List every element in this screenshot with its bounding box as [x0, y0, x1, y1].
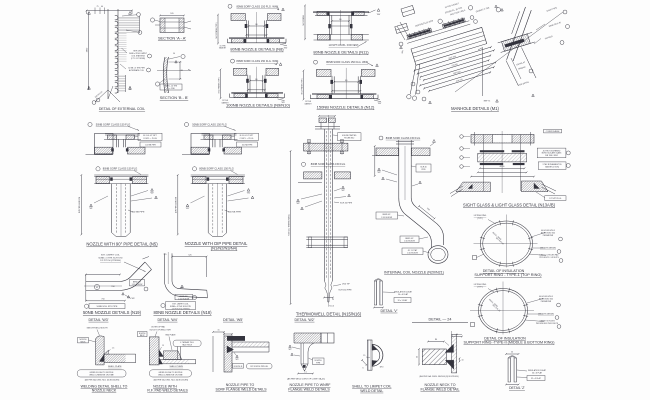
section A-A side stubs	[184, 21, 191, 23]
detail 24 vertical flange bar	[452, 334, 457, 373]
svg-text:40: 40	[101, 6, 103, 8]
svg-text:80NB SORF CLASS 150 FLG: 80NB SORF CLASS 150 FLG	[103, 167, 137, 171]
svg-text:SUPPORT RING - TYPE-1 (TOP RIN: SUPPORT RING - TYPE-1 (TOP RING)	[474, 273, 542, 277]
external coil top dimension line	[87, 10, 133, 12]
W5 flange vertical bar	[224, 336, 232, 372]
svg-text:HOLES M12: HOLES M12	[344, 137, 354, 139]
svg-text:R6: R6	[435, 339, 437, 341]
svg-text:32 x 3 FLAT: 32 x 3 FLAT	[398, 299, 409, 302]
N9/N10 weld marks on neck	[246, 79, 249, 83]
N12 weld marks on neck	[330, 80, 333, 84]
svg-text:25: 25	[332, 299, 334, 301]
svg-text:100 NB PIPE: 100 NB PIPE	[132, 212, 145, 214]
W5 nozzle dia box	[233, 364, 244, 369]
external coil top small dims	[94, 8, 96, 15]
N9/N10 shell plate left (hatched)	[234, 68, 247, 75]
section B-B lower-left leader	[155, 82, 159, 86]
thermowell right leader flags	[342, 186, 345, 189]
N8 left dimension line	[217, 15, 219, 44]
section A-A leader circle	[150, 18, 154, 22]
N5 left dim	[80, 175, 82, 235]
limpet weld triangle bottom	[372, 360, 377, 366]
manhole bottom flags	[429, 101, 432, 104]
N12 center line	[345, 68, 347, 99]
manhole left flag	[400, 46, 403, 49]
N5 pad flange	[94, 174, 148, 176]
W2 leader flags	[289, 345, 291, 347]
sight glass gasket bars upper	[480, 150, 504, 152]
section A-A top dim	[160, 15, 184, 17]
davit pipe lines	[503, 6, 532, 62]
thermowell mid leader text	[301, 162, 305, 166]
N19 horizontal pipe	[86, 281, 120, 283]
svg-text:BEND 90°: BEND 90°	[133, 281, 141, 283]
N5 pipe bottom tip	[112, 233, 116, 237]
svg-text:MANHOLE DETAILS (M1): MANHOLE DETAILS (M1)	[451, 106, 499, 111]
external coil mid striations	[119, 33, 127, 62]
N12 flange weld triangles	[329, 95, 332, 99]
internal coil end circle	[428, 246, 448, 264]
N8 center line	[255, 12, 257, 43]
svg-text:BEND 45°: BEND 45°	[383, 214, 391, 216]
N1/N2/N3/N4 big shell rect left	[191, 134, 210, 155]
section B-B right dim	[179, 62, 181, 79]
svg-text:NECK: NECK	[81, 341, 87, 343]
limpet D arc outer	[372, 344, 383, 366]
manhole barrel rectangle	[411, 27, 487, 65]
W3 weld marks	[100, 354, 105, 361]
N5 weld dots at shell	[111, 148, 114, 151]
svg-text:50NB SORF CLASS 150 FLG: 50NB SORF CLASS 150 FLG	[96, 122, 130, 126]
N19 pipe cut end extra	[143, 257, 150, 260]
svg-text:OUTER OF PAD: OUTER OF PAD	[151, 326, 166, 329]
limpet weld triangle top	[372, 344, 377, 350]
sight glass shell wing lines	[450, 186, 463, 194]
external coil bottom markers	[88, 87, 91, 90]
detail 24 top dims	[452, 336, 462, 338]
section B-B note box	[160, 84, 182, 90]
N8 top leader text	[228, 4, 232, 8]
N9/N10 flange hatched left	[234, 94, 246, 98]
N11 flange hatched parts	[317, 12, 327, 16]
W4 tell-tale hole	[176, 347, 178, 360]
svg-text:50NB SORF CLASS 150 FLG: 50NB SORF CLASS 150 FLG	[192, 122, 226, 126]
N1/N2/N3/N4 top flange lines	[202, 133, 237, 135]
svg-text:DETAIL 'W5': DETAIL 'W5'	[223, 318, 243, 322]
svg-text:15: 15	[363, 355, 365, 357]
svg-text:Ø 10.5: Ø 10.5	[328, 306, 335, 308]
section B-B weld flag	[175, 61, 177, 63]
sight glass top cover bar	[471, 135, 534, 144]
sight glass gasket bars lower	[480, 163, 503, 165]
svg-text:GRIND FLUSH TO NOZZLE: GRIND FLUSH TO NOZZLE	[158, 372, 183, 374]
svg-text:100 NB PIPE: 100 NB PIPE	[228, 212, 241, 214]
N5 pad flange hatched	[96, 177, 110, 184]
svg-text:1.5D ELBOW: 1.5D ELBOW	[178, 298, 189, 300]
W3 nozzle neck bar	[96, 336, 105, 365]
N9/N10 flange hatched right	[267, 94, 279, 98]
ring2 crosshair	[470, 310, 534, 312]
N1/N2/N3/N4 mid leader	[192, 167, 196, 171]
svg-text:(TYP.): (TYP.)	[477, 287, 483, 289]
svg-text:TALE HOLE: TALE HOLE	[182, 343, 193, 346]
svg-text:'W5': 'W5'	[378, 103, 382, 105]
W3 shell plate	[104, 353, 136, 355]
W2 flange top bar plain right	[321, 333, 334, 343]
svg-text:SCH 40 PIPE: SCH 40 PIPE	[340, 202, 353, 204]
N1/N2/N3/N4 weld dots at shell	[208, 148, 211, 151]
internal coil bend note 3	[402, 248, 423, 255]
svg-text:80NB SORF CLASS 150 FLG: 80NB SORF CLASS 150 FLG	[311, 162, 345, 166]
svg-text:100NB NOZZLE DETAILS (N9/N10): 100NB NOZZLE DETAILS (N9/N10)	[226, 103, 291, 108]
ring1 splice ticks	[528, 248, 533, 249]
N11 top right flag	[369, 10, 376, 13]
svg-text:10: 10	[462, 360, 464, 362]
N18 elbow bend	[164, 281, 207, 298]
external coil left dimension line	[88, 13, 90, 89]
N9/N10 bottom flange	[231, 91, 283, 93]
N1/N2/N3/N4 right leaders	[247, 189, 250, 192]
ring1 crosshair	[474, 243, 538, 245]
svg-text:50: 50	[173, 53, 175, 55]
N11 shell plates bottom hatched	[317, 35, 330, 40]
N18 bend note box	[175, 294, 193, 300]
N1/N2/N3/N4 shell plates hatched	[191, 147, 209, 154]
W2 note box	[313, 358, 325, 365]
N1/N2/N3/N4 top flange hatched parts	[204, 135, 213, 139]
sight glass center line	[501, 131, 503, 193]
detail V dim	[374, 307, 383, 309]
svg-text:M. FLG 1/2' NPT: M. FLG 1/2' NPT	[240, 135, 254, 137]
internal coil right note box	[416, 164, 431, 172]
N18 bottom note box	[161, 303, 165, 307]
detail Z channel	[508, 358, 511, 382]
svg-text:WELD DETAIL: WELD DETAIL	[360, 389, 383, 393]
sight glass weld triangles	[468, 184, 472, 188]
external coil detail: shell vertical lines	[107, 9, 109, 99]
N1/N2/N3/N4 top leader	[184, 122, 188, 126]
thermowell wide plate	[304, 143, 348, 151]
section B-B center line	[157, 70, 190, 72]
detail 24 weld triangle bottom	[445, 360, 453, 369]
N1/N2/N3/N4 note boxes right	[235, 133, 259, 140]
internal coil nozzle flag	[433, 140, 436, 143]
W5 W5 leader	[236, 355, 238, 357]
internal coil left flags	[378, 168, 381, 171]
N1/N2/N3/N4 pipe bottom tip	[208, 233, 212, 237]
W2 flange top bar hatched	[294, 333, 321, 343]
internal coil nozzle top leader	[379, 136, 383, 140]
svg-text:(AS PER WELD JOINT OF COMP. GA: (AS PER WELD JOINT OF COMP. GA-05)	[287, 378, 325, 381]
W4 grind flush box	[149, 370, 191, 377]
svg-text:R = 1130: R = 1130	[167, 88, 174, 90]
svg-text:DETAIL 'W3': DETAIL 'W3'	[89, 318, 109, 322]
svg-text:'W5': 'W5'	[284, 47, 288, 49]
section B-B curved shell strip	[163, 57, 165, 93]
svg-text:PRO BOLTS / LR NUTS: PRO BOLTS / LR NUTS	[539, 257, 559, 259]
N8 shell plate right (hatched)	[268, 14, 281, 21]
svg-text:1ST NOZZLE PIPE LBL: 1ST NOZZLE PIPE LBL	[250, 366, 268, 368]
N8 flange hatched left	[232, 39, 244, 43]
thermowell bottom taper	[325, 281, 328, 294]
N11 left dimension line	[304, 5, 306, 39]
svg-text:M/C FINISH: M/C FINISH	[303, 15, 305, 26]
svg-text:PERIMETER: PERIMETER	[543, 235, 554, 237]
svg-text:EXT. LIMPET COIL: EXT. LIMPET COIL	[101, 255, 121, 257]
W3 grind flush box	[77, 370, 126, 377]
davit perpendicular strokes	[506, 61, 519, 87]
W2 neck	[300, 343, 302, 364]
thermowell mid support plates	[306, 236, 348, 238]
svg-text:15: 15	[218, 330, 220, 332]
N11 weld marks neck bottom	[328, 24, 331, 28]
W4 RF pad	[163, 351, 181, 360]
thermowell shell plates	[304, 172, 322, 179]
detail Z top dim	[506, 353, 519, 355]
detail Z bottom dim	[506, 384, 519, 386]
svg-text:SHELL PLATE: SHELL PLATE	[170, 365, 184, 368]
svg-text:FLANGE WELD DETAIL: FLANGE WELD DETAIL	[420, 388, 459, 392]
W4 tell tale note box	[173, 340, 201, 346]
N19 weld flags	[122, 293, 124, 295]
svg-text:M. FLG 1/2' NPT: M. FLG 1/2' NPT	[143, 135, 157, 137]
svg-text:OUTLET OF WELD TWH: OUTLET OF WELD TWH	[149, 330, 171, 332]
section A-A body	[160, 18, 184, 33]
internal coil diagonal dim	[419, 206, 435, 219]
N5 shell plates hatched	[95, 147, 113, 154]
svg-text:NOZZLE Ø: NOZZLE Ø	[234, 366, 243, 368]
N12 gasket lines right end	[374, 100, 381, 102]
N1/N2/N3/N4 pad weld dots	[207, 177, 210, 180]
N5 left leader flag	[90, 204, 93, 207]
svg-text:GASKET: GASKET	[219, 47, 227, 50]
N11 flange weld marks	[327, 12, 330, 16]
detail 24 right dim	[459, 358, 461, 361]
manhole cover strip on davit	[498, 32, 535, 52]
external coil section flag A top-left	[88, 12, 91, 15]
svg-text:50NB x 3 THK SCH STD: 50NB x 3 THK SCH STD	[98, 257, 123, 259]
svg-text:DETAIL 'Z': DETAIL 'Z'	[509, 386, 525, 390]
ring1 outer ring ellipse	[481, 221, 533, 266]
svg-text:WELD & REMOVE ON TIME: WELD & REMOVE ON TIME	[158, 375, 183, 377]
sight glass bottom note box	[545, 196, 566, 201]
N1/N2/N3/N4 neck	[212, 139, 214, 147]
ring1 inner ring ellipse	[483, 223, 531, 264]
svg-text:1.5D ELBOW: 1.5D ELBOW	[132, 284, 143, 286]
thermowell small top flange	[315, 126, 340, 128]
sight glass thru bolts	[483, 135, 485, 192]
svg-text:86: 86	[181, 70, 183, 72]
ring2 splice ticks	[523, 315, 528, 316]
N1/N2/N3/N4 vertical pipe	[207, 184, 209, 233]
svg-text:50: 50	[511, 352, 513, 354]
N11 center line and dims	[339, 10, 341, 45]
svg-text:50 x 6 FLAT: 50 x 6 FLAT	[398, 293, 409, 296]
svg-text:(N1/N2/N3/N4): (N1/N2/N3/N4)	[211, 245, 238, 250]
thermowell left leader flags	[297, 199, 300, 202]
N8 weld marks on neck	[245, 24, 248, 28]
manhole leader circles	[437, 19, 442, 24]
svg-text:COUPL. + PLUG: COUPL. + PLUG	[240, 138, 254, 140]
W2 weld V bottom	[301, 364, 308, 371]
sight glass mid dims	[480, 167, 525, 169]
svg-text:FLANGE WELD DETAILS: FLANGE WELD DETAILS	[288, 388, 330, 392]
internal coil right flag	[419, 181, 422, 184]
svg-text:DIN 7080 / 8902: DIN 7080 / 8902	[545, 155, 558, 157]
sight glass top small box	[544, 129, 562, 133]
svg-text:SORF FLANGE WELD DETAILS: SORF FLANGE WELD DETAILS	[215, 388, 267, 392]
svg-text:M/C FINISH (TYP.): M/C FINISH (TYP.)	[218, 77, 220, 93]
svg-text:PER M10 BOLTS/LR NUTS: PER M10 BOLTS/LR NUTS	[536, 323, 559, 325]
N1/N2/N3/N4 left leader flag	[186, 204, 189, 207]
sight glass right note box 1	[537, 148, 566, 158]
svg-text:(2 TO 11 TURNS): (2 TO 11 TURNS)	[131, 58, 146, 60]
svg-text:ALTERNATE COIL: ALTERNATE COIL	[129, 69, 144, 72]
svg-text:7000 LG. THERMOWELL: 7000 LG. THERMOWELL	[288, 214, 290, 236]
N1/N2/N3/N4 pad flange hatched	[193, 177, 207, 184]
W4 weld blobs	[159, 350, 163, 357]
section B-B top leader	[169, 57, 180, 60]
external coil loops	[115, 15, 118, 93]
N5 neck	[115, 139, 117, 147]
svg-text:80NB NOZZLE DETAILS (N18): 80NB NOZZLE DETAILS (N18)	[153, 310, 212, 315]
ring1 bottom-left tag	[473, 256, 477, 260]
external coil bottom slanted leaders	[95, 90, 108, 102]
svg-text:15: 15	[162, 345, 164, 347]
svg-text:NOZZLE PIPE TO: NOZZLE PIPE TO	[226, 383, 255, 387]
N8 bore dim	[249, 25, 265, 27]
svg-text:SECTION 'B - B': SECTION 'B - B'	[160, 95, 189, 100]
svg-text:6: 6	[362, 368, 363, 370]
thermowell note box right	[338, 133, 362, 141]
N5 pad weld dots	[110, 177, 113, 180]
svg-text:80NB SORF CLASS 150 FLG: 80NB SORF CLASS 150 FLG	[199, 167, 233, 171]
N18 vertical pipe	[163, 253, 165, 281]
svg-text:GRIND FLUSH TO NOZZLE: GRIND FLUSH TO NOZZLE	[90, 372, 115, 374]
N5 mid leader	[96, 167, 100, 171]
limpet shell bar	[367, 340, 372, 370]
svg-text:Ø70: Ø70	[380, 366, 384, 368]
thermowell plate bolts	[308, 140, 310, 155]
svg-text:50NB SCH. STD PIPE: 50NB SCH. STD PIPE	[97, 306, 118, 308]
svg-text:M/C FINISH (TYP.): M/C FINISH (TYP.)	[216, 22, 218, 38]
N12 top leader text	[314, 60, 318, 64]
svg-text:80NB SORF CLASS 150 FLG: 80NB SORF CLASS 150 FLG	[386, 136, 420, 140]
svg-text:DETAIL 'W2': DETAIL 'W2'	[295, 318, 315, 322]
svg-text:DETAIL 'W4': DETAIL 'W4'	[158, 318, 178, 322]
detail 24 hatched block	[422, 349, 446, 365]
svg-text:SECTION 'A - A': SECTION 'A - A'	[158, 35, 186, 40]
W2 bottom dim	[298, 373, 313, 375]
manhole bolt ticks	[409, 33, 411, 39]
svg-text:REF 75: REF 75	[484, 101, 490, 103]
W3 left note box	[78, 338, 89, 343]
svg-text:SHELL PLATE: SHELL PLATE	[108, 365, 122, 368]
external coil lower band horizontal striations	[119, 75, 126, 92]
N12 bottom flange	[312, 92, 376, 94]
svg-text:1/2 PITCH (CTRING): 1/2 PITCH (CTRING)	[100, 260, 121, 262]
ring2 outer ring ellipse	[479, 289, 528, 333]
N12 flag W	[376, 64, 379, 67]
svg-text:SMOOTH BELL MOUTH: SMOOTH BELL MOUTH	[87, 327, 108, 329]
svg-text:COUPL. + PLUG: COUPL. + PLUG	[143, 138, 157, 140]
svg-text:SUPPORT RING -TYPE-II (MIDDLE: SUPPORT RING -TYPE-II (MIDDLE & BOTTOM R…	[464, 340, 555, 344]
svg-text:45: 45	[96, 287, 98, 289]
internal coil S bend inner	[411, 198, 443, 245]
W4 left note box	[138, 332, 148, 337]
svg-text:150NB NOZZLE DETAILS (N12): 150NB NOZZLE DETAILS (N12)	[317, 105, 375, 110]
manhole cover bar 2	[442, 18, 465, 28]
external coil upper band horizontal striations	[119, 16, 140, 33]
N9/N10 left dimension line	[220, 70, 222, 99]
svg-text:20: 20	[417, 356, 419, 358]
N11 neck walls	[329, 15, 331, 40]
svg-text:50 x 6 FLAT: 50 x 6 FLAT	[532, 371, 543, 374]
N12 shell plate right (hatched)	[361, 69, 375, 76]
N5 right leaders	[151, 189, 154, 192]
svg-text:SIGHT GLASS & LIGHT GLASS DETA: SIGHT GLASS & LIGHT GLASS DETAIL (N13A/B…	[463, 203, 556, 208]
N5 vertical pipe	[111, 184, 113, 233]
W5 black triangle	[227, 346, 234, 353]
svg-text:100 NB PIPE: 100 NB PIPE	[242, 144, 253, 146]
N12 shell plate left (hatched)	[317, 69, 332, 76]
N9/N10 center line	[255, 67, 257, 98]
svg-text:525: 525	[188, 254, 191, 256]
svg-text:WELD & REMOVE ON TIME: WELD & REMOVE ON TIME	[89, 375, 114, 377]
N5 top leader	[88, 122, 92, 126]
N8 flange hatched right	[268, 39, 280, 43]
svg-text:80NB NOZZLE DETAILS (N11): 80NB NOZZLE DETAILS (N11)	[313, 50, 369, 55]
W4 shell plate	[159, 359, 196, 361]
manhole main rotated group	[386, 0, 519, 102]
N9/N10 gasket lines right end	[278, 99, 285, 101]
manhole far-left small box	[401, 5, 415, 16]
manhole lower-left tick circles	[411, 82, 415, 86]
svg-text:75: 75	[97, 6, 99, 8]
internal coil bend note 2	[400, 236, 419, 243]
sight glass bottom flange right	[521, 181, 548, 192]
internal coil bend note 1	[376, 212, 398, 219]
N19 bottom note	[84, 304, 88, 308]
N19 mid texts	[94, 284, 99, 289]
svg-text:1.5: 1.5	[304, 371, 307, 373]
svg-text:M/C FINISH (TYP.): M/C FINISH (TYP.)	[301, 78, 303, 94]
N12 flange hatched left	[317, 95, 329, 99]
W5 right note box	[247, 364, 273, 369]
svg-text:(TYP.): (TYP.)	[477, 218, 483, 220]
svg-text:NOZZLE NECK: NOZZLE NECK	[92, 389, 117, 393]
N8 bottom flange	[229, 37, 284, 39]
svg-text:'W4': 'W4'	[377, 14, 381, 16]
N12 nozzle neck walls	[331, 76, 333, 94]
svg-text:3 THK NON ASBESTOS: 3 THK NON ASBESTOS	[542, 163, 562, 166]
N19 elbow bend	[120, 262, 145, 282]
svg-text:INSULATION CLEAT: INSULATION CLEAT	[394, 290, 413, 293]
manhole flange face lines	[406, 21, 469, 40]
svg-text:(AS PER GA. DWG. N0.1 (S) NOZZ: (AS PER GA. DWG. N0.1 (S) NOZZLES)	[154, 378, 189, 381]
manhole vertical reference line	[482, 48, 484, 97]
svg-text:1/2 NPT COUPL. FOR VENT: 1/2 NPT COUPL. FOR VENT	[329, 45, 359, 47]
N8 gasket lines right end	[280, 44, 287, 46]
svg-text:1.5D ELBOW: 1.5D ELBOW	[407, 253, 418, 255]
detail 24 left dim	[418, 349, 420, 365]
svg-text:1.5: 1.5	[112, 347, 115, 349]
manhole davit box	[395, 23, 409, 33]
N18 flags	[181, 285, 183, 287]
internal coil top flange stubs	[396, 141, 414, 143]
svg-text:80NB NOZZLE DETAILS (N8): 80NB NOZZLE DETAILS (N8)	[230, 47, 284, 52]
N19 bend note box	[130, 280, 145, 286]
